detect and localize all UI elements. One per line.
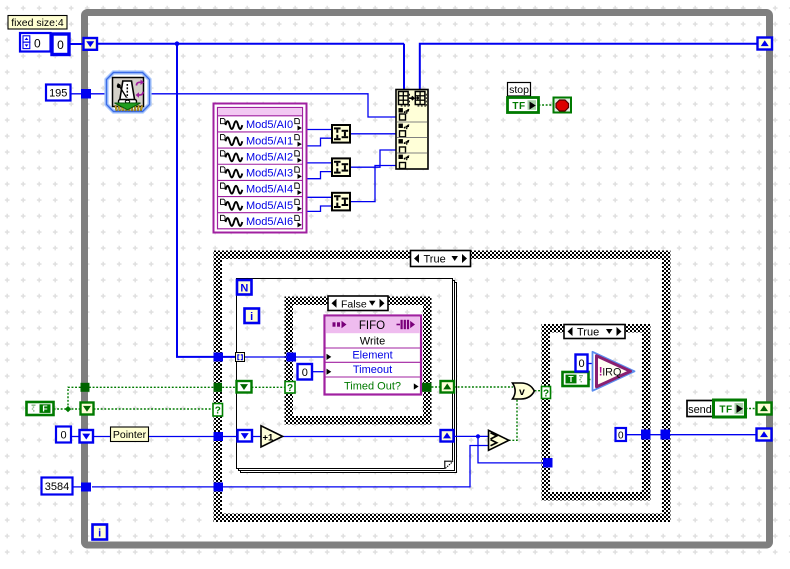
join numbers 2 [332, 158, 350, 176]
wire pointer branch to IRQ case tunnel [478, 436, 543, 463]
shift register left (boolean) [81, 403, 94, 415]
svg-text:Mod5/AI2: Mod5/AI2 [246, 151, 293, 163]
svg-text:T: T [568, 374, 574, 384]
wire 0 out to right SR bottom [626, 434, 757, 436]
svg-text:0: 0 [57, 38, 64, 52]
shift register right (array) [758, 38, 773, 50]
or node [513, 383, 535, 399]
wire TF const branch up to tunnel [68, 387, 81, 409]
case structure True (outer) border [214, 251, 671, 523]
wire T const to IRQ node [589, 379, 597, 381]
svg-text:stop: stop [509, 84, 529, 96]
wire 0 to IRQ node [588, 363, 596, 365]
join numbers 3 [332, 193, 350, 211]
wire 3584 in [73, 486, 85, 488]
constant 195 [46, 85, 71, 101]
wire AI3 to join2 [307, 172, 333, 179]
wire AI4 to join3 [307, 196, 333, 198]
boolean constant F [27, 402, 54, 415]
wire pointer to greater-equal [454, 435, 489, 437]
shift register left (pointer) [80, 430, 94, 443]
selector label True (outer case) [411, 251, 471, 267]
svg-text:i: i [250, 311, 253, 323]
tunnel 195 [81, 89, 91, 99]
svg-text:Mod5/AI5: Mod5/AI5 [246, 200, 293, 212]
tunnel pointer into case [214, 432, 224, 441]
wire junction TF diamond [65, 406, 71, 412]
wire element into inner case [245, 356, 327, 358]
svg-text:v: v [519, 386, 525, 398]
tunnel array into case [214, 353, 224, 362]
svg-text:Mod5/AI6: Mod5/AI6 [246, 216, 293, 228]
svg-text:Mod5/AI0: Mod5/AI0 [246, 119, 293, 131]
wire replace node out to right SR [420, 44, 758, 90]
wire timeout 0 to FIFO [312, 371, 326, 373]
FIFO write node [325, 316, 422, 395]
boolean control stop TF [508, 98, 539, 113]
increment node +1 [261, 426, 283, 447]
wire 3584 to greater-equal [92, 446, 489, 487]
label Pointer [111, 427, 149, 442]
tunnel boolean left [81, 383, 90, 392]
wire green SR left to case selector [94, 408, 214, 410]
wire TF const to shift register [54, 408, 82, 410]
wire for SR to inner case selector [252, 386, 286, 388]
svg-text:True: True [577, 327, 599, 339]
label stop [508, 83, 531, 97]
wire for SR right to OR [454, 386, 513, 388]
constant 0 timeout [298, 364, 313, 380]
tunnel boolean into case [214, 383, 223, 392]
constant 0 pointer init [56, 427, 71, 443]
inner case selector terminal ? [285, 382, 295, 395]
svg-text:?: ? [287, 383, 293, 394]
join numbers 1 [332, 125, 350, 143]
wire junction pointer [476, 434, 480, 438]
IRQ case selector terminal ? [542, 387, 551, 400]
wire AI0 to join1 [307, 129, 333, 131]
wire boolean into case to for SR [89, 386, 237, 388]
svg-text:3584: 3584 [45, 481, 69, 493]
svg-text:?: ? [543, 388, 549, 399]
svg-text:N: N [240, 283, 248, 295]
constant 3584 [42, 478, 73, 495]
svg-text:F: F [42, 404, 47, 414]
svg-text:i: i [98, 528, 101, 540]
tunnel 3584 into case [214, 483, 224, 492]
svg-text:True: True [424, 254, 446, 266]
tunnel element into inner case [287, 353, 297, 362]
tunnel 3584 [81, 483, 91, 492]
svg-text:+1: +1 [263, 432, 275, 443]
svg-text:TF: TF [719, 405, 732, 416]
svg-text:Mod5/AI4: Mod5/AI4 [246, 184, 293, 196]
svg-text:fixed size:4: fixed size:4 [11, 17, 64, 29]
array control index/element [20, 33, 69, 55]
tunnel 0 out of big case [661, 430, 671, 440]
svg-text:0: 0 [34, 37, 41, 51]
shift register left (array) [84, 38, 98, 50]
svg-text:0: 0 [60, 430, 66, 442]
wire OR out to IRQ selector [535, 390, 543, 392]
selector label False (inner case) [328, 296, 388, 311]
wire stop TF to loop condition [539, 104, 555, 106]
wire join1 out [350, 133, 396, 135]
svg-text:0: 0 [578, 358, 584, 370]
for loop shift register left (boolean) [237, 381, 252, 393]
loop condition terminal (stop sign) [554, 98, 572, 113]
svg-text:Mod5/AI1: Mod5/AI1 [246, 135, 293, 147]
wire 195 to loop timer [71, 93, 109, 95]
tunnel 0 out of IRQ case [641, 430, 651, 440]
replace array subset node [396, 90, 428, 170]
svg-text:Write: Write [360, 335, 385, 347]
for loop frame [237, 279, 457, 473]
case structure False (inner) border [285, 297, 432, 425]
case selector terminal ? (outer) [213, 404, 223, 417]
wire loop timer to replace node [149, 94, 397, 117]
svg-text:Timed Out?: Timed Out? [344, 381, 401, 393]
shift register right (pointer) [757, 429, 772, 441]
tunnel timed out [422, 383, 432, 392]
wire AI5 to join3 [307, 206, 333, 211]
svg-text:Timeout: Timeout [353, 364, 392, 376]
greater or equal node [489, 430, 509, 450]
svg-text:IRQ: IRQ [602, 367, 621, 379]
label send [687, 401, 713, 417]
svg-text:0: 0 [302, 367, 308, 379]
shift register right (boolean send) [757, 403, 772, 415]
FPGA IO node Mod5/AI0..AI6 [214, 104, 307, 233]
constant 0 IRQ [576, 355, 588, 372]
loop timer node [107, 73, 150, 112]
for loop shift register right (boolean) [441, 381, 455, 393]
wire array ctl to left shift register [69, 43, 84, 45]
wire +1 out to right SR [283, 436, 441, 438]
auto-index tunnel [236, 353, 245, 362]
wire AI2 to join2 [307, 162, 333, 164]
wire junction top [175, 41, 180, 46]
wire main array top run [96, 43, 404, 45]
wire pointer to +1 [92, 436, 261, 438]
wire send TF to SR [746, 408, 758, 410]
boolean constant T [563, 372, 589, 386]
case structure True (IRQ) border [542, 324, 651, 501]
selector label True (IRQ case) [564, 325, 625, 339]
svg-text:FIFO: FIFO [359, 320, 385, 332]
constant 0 send count [616, 428, 627, 442]
wire array into replace node [403, 44, 405, 90]
for loop shift register right (pointer) [441, 430, 454, 442]
svg-text:Mod5/AI3: Mod5/AI3 [246, 168, 293, 180]
wire join3 out [350, 166, 396, 202]
wait on IRQ node [593, 352, 635, 391]
svg-text:195: 195 [49, 88, 67, 100]
wire greater-equal out to OR [509, 398, 517, 441]
wire AI1 to join1 [307, 138, 333, 146]
svg-text:False: False [341, 298, 367, 310]
tunnel pointer into IRQ case [543, 458, 553, 468]
svg-text:TF: TF [512, 101, 525, 112]
while loop iteration terminal i [93, 525, 108, 540]
wire timed out to for SR right [432, 386, 442, 388]
svg-text:0: 0 [618, 431, 624, 442]
svg-text:?: ? [215, 406, 221, 417]
wire join2 out [350, 150, 396, 167]
wire array branch down to case [177, 44, 236, 357]
for loop iteration terminal i [245, 309, 260, 324]
for loop count terminal N [237, 280, 252, 295]
svg-text:Element: Element [352, 350, 392, 362]
for loop shift register left (pointer) [238, 430, 253, 442]
svg-text:send: send [688, 404, 712, 416]
boolean indicator send TF [714, 400, 746, 417]
svg-text:Pointer: Pointer [113, 429, 147, 441]
wire pointer init [71, 436, 84, 438]
label fixed size:4 [8, 16, 67, 30]
